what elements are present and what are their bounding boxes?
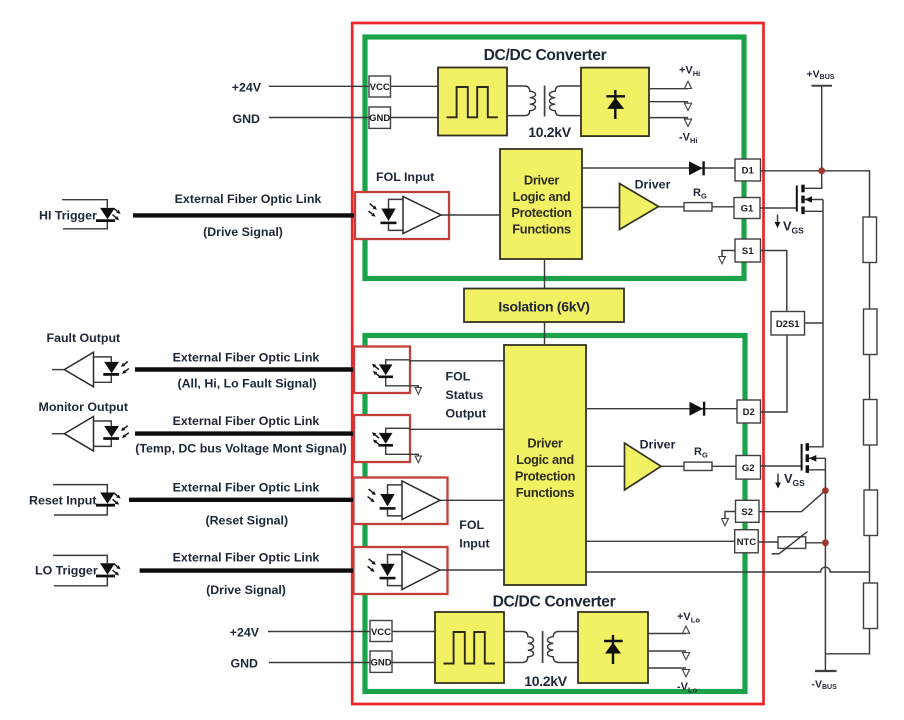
label FOL Status Output	[446, 370, 487, 421]
terminal box D2	[737, 400, 761, 423]
FOL TX symbol Monitor (LED)	[372, 428, 422, 462]
svg-text:Protection: Protection	[511, 205, 572, 220]
Fault Output receiver symbol (amp and photodiode)	[52, 352, 129, 387]
wire rectifier2 +VLo output	[648, 633, 686, 635]
svg-text:(All, Hi, Lo Fault Signal): (All, Hi, Lo Fault Signal)	[177, 377, 316, 391]
rectifier diode symbol top	[606, 90, 625, 119]
resistor chain R4	[864, 490, 878, 536]
svg-text:External Fiber Optic Link: External Fiber Optic Link	[175, 192, 322, 206]
terminal box NTC	[735, 530, 759, 553]
wire D2S1 bottom to D2 right	[761, 335, 788, 412]
thermistor NTC symbol	[772, 532, 808, 554]
FOL TX symbol Fault (LED)	[372, 360, 422, 394]
wire VCC to PWM bottom	[392, 631, 435, 633]
HI Trigger LED symbol	[62, 200, 121, 229]
wire GND to GND box top	[269, 117, 369, 119]
MOSFET Q2	[802, 443, 826, 473]
wire S2 left to ground	[725, 512, 736, 519]
terminal box S2	[736, 500, 760, 522]
svg-text:Monitor Output: Monitor Output	[39, 400, 128, 414]
wire +24V to VCC top	[269, 85, 369, 87]
wire FOL amp 1 to driver logic 1	[441, 214, 500, 216]
arrow +VLo (open, up)	[682, 626, 689, 633]
wire RG2 to G2	[712, 465, 736, 467]
wire rectifier1 +VHi output	[649, 88, 688, 90]
rectifier block top (DC/DC converter 1)	[581, 68, 649, 137]
transformer 2 core	[542, 631, 544, 663]
svg-text:S1: S1	[742, 246, 754, 257]
fiber link Reset Input (thick)	[129, 498, 353, 502]
FOL input box Reset (red)	[354, 478, 448, 525]
resistor chain R3	[864, 400, 878, 446]
wire S2 right to switch blade	[759, 511, 801, 513]
svg-text:(Drive Signal): (Drive Signal)	[203, 225, 283, 239]
svg-text:Driver: Driver	[527, 436, 563, 451]
fiber link Monitor Output (thick)	[135, 431, 353, 435]
LO Trigger LED symbol	[53, 555, 121, 585]
svg-text:G1: G1	[741, 204, 754, 215]
svg-text:External Fiber Optic Link: External Fiber Optic Link	[173, 414, 320, 428]
svg-text:External Fiber Optic Link: External Fiber Optic Link	[173, 351, 320, 365]
wire rectifier1 mid output	[649, 101, 688, 103]
node dot +VBUS/D1	[818, 167, 825, 174]
wire rectifier2 -VLo output	[648, 667, 686, 669]
wire G1 to gate Q1	[760, 207, 797, 209]
terminal box GND bottom	[370, 651, 392, 672]
svg-text:Logic and: Logic and	[513, 189, 571, 204]
svg-text:(Drive Signal): (Drive Signal)	[206, 583, 286, 597]
node dot NTC rail	[822, 539, 829, 546]
svg-text:HI Trigger: HI Trigger	[39, 209, 97, 223]
svg-text:D2S1: D2S1	[776, 319, 800, 330]
svg-text:VCC: VCC	[370, 82, 390, 93]
wire FOL TX1 to driver logic 2	[409, 360, 504, 362]
wire GND box to PWM bottom	[392, 662, 435, 664]
svg-text:LO Trigger: LO Trigger	[35, 564, 98, 578]
transformer 1 primary winding	[507, 86, 536, 116]
svg-text:(Reset Signal): (Reset Signal)	[205, 514, 288, 528]
PWM block bottom (DC/DC converter 2 chopper)	[435, 612, 504, 683]
driver logic block 2 (Driver Logic and Protection Functions LO)	[504, 345, 586, 585]
wire driver logic 2 bottom tap to chain (with hop)	[586, 567, 870, 572]
resistor RG2	[684, 462, 712, 470]
FOL output box Fault TX (red)	[354, 347, 410, 394]
svg-text:NTC: NTC	[737, 537, 757, 548]
square wave symbol top	[447, 87, 498, 117]
label FOL Input bottom	[459, 518, 489, 551]
rectifier block bottom (DC/DC converter 2)	[578, 612, 648, 683]
wire RG1 to G1	[712, 206, 734, 208]
svg-text:External Fiber Optic Link: External Fiber Optic Link	[173, 481, 320, 495]
wire driver logic 2 to NTC	[586, 540, 735, 542]
terminal box VCC top	[369, 76, 391, 97]
Monitor Output receiver symbol (amp and photodiode)	[52, 416, 129, 451]
wire +24V to VCC bottom	[268, 631, 370, 633]
wire D1 to +VBUS node and resistor chain	[761, 171, 870, 217]
green box top (HI side gate drive section)	[365, 37, 744, 279]
wire D2S1 right to midpoint rail	[805, 322, 824, 324]
svg-text:FOL: FOL	[459, 518, 484, 532]
wire isolation link bottom	[544, 322, 546, 345]
svg-text:Fault Output: Fault Output	[47, 331, 121, 345]
diode to D1	[689, 161, 704, 175]
svg-text:GND: GND	[370, 658, 391, 669]
driver amp triangle 1	[620, 184, 659, 230]
wire rectifier2 mid output	[648, 650, 686, 652]
diode to D2	[690, 402, 705, 416]
svg-text:FOL Input: FOL Input	[376, 170, 434, 184]
resistor chain R2	[864, 309, 878, 355]
svg-text:VCC: VCC	[371, 627, 391, 638]
transformer 1 core	[544, 86, 546, 117]
FOL output box Monitor TX (red)	[354, 415, 410, 462]
VGS arrow Q1	[775, 215, 781, 229]
svg-text:Reset Input: Reset Input	[29, 494, 96, 508]
svg-text:External Fiber Optic Link: External Fiber Optic Link	[173, 551, 320, 565]
svg-text:10.2kV: 10.2kV	[528, 124, 572, 140]
terminal box G2	[736, 456, 761, 480]
svg-text:10.2kV: 10.2kV	[524, 673, 568, 689]
arrow mid Lo (open, down)	[682, 653, 689, 660]
svg-text:Protection: Protection	[515, 469, 576, 484]
wire thermistor to lower rail	[806, 542, 826, 544]
wire driver amp 1 to RG1	[659, 206, 685, 208]
PWM block top (DC/DC converter 1 chopper)	[438, 68, 507, 136]
arrow -VHi (open, down)	[684, 119, 691, 126]
wire driver amp 2 to RG2	[661, 465, 684, 467]
ground arrow S2 (open)	[722, 519, 729, 526]
driver amp triangle 2	[625, 443, 662, 490]
svg-text:S2: S2	[741, 507, 753, 518]
wire G2 to gate Q2	[761, 465, 802, 467]
svg-text:FOL: FOL	[446, 370, 471, 384]
fiber link LO Trigger (thick)	[140, 568, 353, 572]
wire VCC to PWM top	[391, 85, 439, 87]
isolation block (Isolation 6kV)	[464, 289, 624, 323]
terminal box VCC bottom	[370, 621, 392, 642]
svg-text:Output: Output	[446, 407, 487, 421]
FOL input box HI (red)	[355, 192, 449, 239]
svg-text:Functions: Functions	[512, 222, 571, 237]
wire driver logic 1 to driver amp 1	[582, 207, 620, 209]
wire S1 left to ground	[722, 251, 735, 257]
resistor RG1	[684, 203, 712, 211]
svg-text:GND: GND	[232, 112, 260, 126]
transformer 2 secondary winding	[547, 632, 578, 663]
svg-text:GND: GND	[369, 113, 390, 124]
wire FOL RX reset to driver logic 2	[440, 499, 504, 501]
ground arrow S1 (open)	[719, 257, 726, 264]
wire +VBUS terminal	[821, 86, 823, 171]
svg-text:D1: D1	[742, 166, 755, 177]
svg-text:DC/DC Converter: DC/DC Converter	[484, 47, 607, 64]
svg-text:Driver: Driver	[635, 178, 671, 192]
svg-text:(Temp, DC bus Voltage Mont Sig: (Temp, DC bus Voltage Mont Signal)	[135, 442, 347, 456]
FOL RX symbol HI input (photodiode and amp)	[369, 197, 441, 234]
svg-text:D2: D2	[743, 407, 755, 418]
FOL input box LO (red)	[354, 547, 448, 594]
svg-text:Driver: Driver	[640, 438, 676, 452]
fiber link HI Trigger (thick)	[133, 213, 354, 217]
wire GND box to PWM top	[391, 117, 439, 119]
svg-text:Input: Input	[459, 537, 489, 551]
svg-text:Functions: Functions	[516, 485, 575, 500]
terminal box D2S1	[771, 312, 805, 336]
svg-text:Isolation (6kV): Isolation (6kV)	[498, 299, 589, 315]
wire GND to GND box bottom	[269, 662, 370, 664]
red boundary box	[352, 23, 763, 704]
svg-text:Logic and: Logic and	[516, 452, 574, 467]
fiber link Fault Output (thick)	[135, 367, 353, 371]
arrow mid Hi (open, down)	[684, 103, 691, 110]
-VBUS terminal bar	[815, 670, 837, 672]
wire FOL RX LO to driver logic 2	[440, 569, 504, 571]
square wave symbol bottom	[444, 632, 495, 664]
terminal box S1	[735, 239, 761, 262]
+VBUS terminal bar	[812, 85, 833, 87]
MOSFET Q1	[797, 171, 823, 214]
driver logic block 1 (Driver Logic and Protection Functions HI)	[500, 149, 582, 259]
rectifier diode symbol bottom	[604, 635, 623, 664]
wire isolation link top	[544, 259, 546, 289]
VGS arrow Q2	[775, 474, 781, 489]
wire driver logic 2 to driver amp 2	[586, 465, 625, 467]
transformer 2 primary winding	[504, 632, 534, 663]
FOL RX symbol LO (photodiode and amp)	[368, 551, 440, 590]
driver logic 2 text	[515, 436, 576, 501]
wire S1 right to D2S1 top	[761, 251, 787, 312]
midpoint rail Q1 source to Q2 drain	[822, 200, 824, 447]
svg-text:G2: G2	[742, 463, 755, 474]
switch blade diagonal S2 to source node	[801, 491, 825, 512]
terminal box GND top	[369, 107, 391, 128]
resistor chain R1	[863, 217, 877, 263]
wire driver logic 2 to diode D2	[586, 408, 737, 410]
lower rail Q2 source to -VBUS	[824, 458, 826, 671]
svg-text:DC/DC Converter: DC/DC Converter	[493, 594, 616, 611]
FOL RX symbol Reset (photodiode and amp)	[368, 481, 440, 520]
arrow -VLo (open, down)	[682, 670, 689, 677]
terminal box D1	[735, 159, 761, 181]
wire FOL TX2 to driver logic 2	[409, 428, 504, 430]
svg-text:Driver: Driver	[524, 172, 560, 187]
terminal box G1	[734, 198, 760, 219]
arrow +VHi (open, up)	[684, 81, 691, 88]
svg-text:+24V: +24V	[232, 81, 262, 95]
wire NTC to thermistor	[758, 541, 778, 543]
svg-text:+24V: +24V	[230, 626, 260, 640]
green box bottom (LO side gate drive section)	[365, 336, 745, 692]
Reset Input LED symbol	[53, 485, 121, 515]
resistor chain R5	[864, 583, 878, 629]
svg-text:GND: GND	[230, 657, 258, 671]
wire rectifier1 -VHi output	[649, 117, 688, 119]
transformer 1 secondary winding	[550, 86, 582, 116]
svg-text:Status: Status	[446, 388, 484, 402]
resistor chain verticals	[825, 263, 869, 654]
driver logic 1 text	[511, 172, 572, 236]
wire driver logic 1 to diode D1	[582, 167, 735, 169]
node dot S2 switch	[822, 487, 829, 494]
